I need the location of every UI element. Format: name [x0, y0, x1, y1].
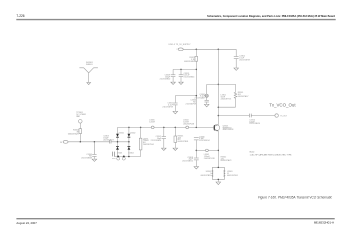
node C3313 — [180, 69, 182, 71]
capacitor C3302 — [234, 49, 239, 68]
IC U3301 left label — [201, 171, 212, 177]
capacitor C3309 label — [160, 75, 171, 81]
capacitor C3302 label — [239, 56, 249, 62]
capacitor C3304 — [205, 100, 209, 104]
wire — [79, 123, 81, 129]
wire main vertical (collector column) — [217, 49, 219, 124]
node IC top — [218, 167, 220, 169]
node C3311/base column — [196, 95, 198, 97]
node D3302 mid — [128, 141, 130, 143]
inductor L3302 (bead) — [206, 149, 209, 152]
capacitor C3303 label — [103, 136, 114, 142]
ground (C3308) — [194, 167, 199, 169]
wire bridge bottom rail — [114, 156, 141, 158]
port 5V_STEER — [63, 141, 68, 144]
svg-text:SHIELD: SHIELD — [86, 64, 93, 66]
inductor L3305 label — [149, 120, 155, 124]
capacitor C3308 label — [182, 157, 193, 163]
inductor L3303 label — [143, 138, 154, 146]
node L3303 top — [140, 127, 142, 129]
resistor R3322 label — [184, 57, 195, 63]
ground (C3311) — [173, 111, 178, 113]
inductor L3304 (bead on rail) — [186, 126, 189, 129]
resistor R3305 label — [178, 135, 189, 143]
varactor D3301 — [116, 127, 119, 141]
footer rule — [16, 218, 334, 220]
transistor Q3301 — [213, 125, 219, 132]
varactor D3302 — [128, 127, 131, 141]
svg-text:2113743E22: 2113743E22 — [182, 161, 193, 163]
wire tank top — [207, 83, 236, 85]
varactor D3304 — [128, 142, 131, 157]
capacitor C3313 label — [184, 73, 195, 79]
resistor R3301 (zigzag) — [234, 84, 237, 107]
ground (C3313) — [179, 82, 184, 84]
node bottom rail D3304 — [128, 156, 130, 158]
node emitter tap left — [196, 150, 198, 152]
svg-text:Schematics, Component Location: Schematics, Component Location Diagrams,… — [207, 14, 335, 18]
svg-text:0662057A25: 0662057A25 — [68, 132, 79, 135]
svg-text:2113743E20: 2113743E20 — [249, 123, 260, 125]
node tank top — [218, 84, 220, 86]
inductor L3303 — [139, 127, 142, 156]
svg-text:2462587N14: 2462587N14 — [143, 144, 154, 146]
svg-text:Figure 7-160. PMLF4035A Transm: Figure 7-160. PMLF4035A Transmit VCO Sch… — [258, 195, 332, 199]
svg-text:0662057B24: 0662057B24 — [201, 175, 212, 177]
wire emitter tap line — [196, 149, 205, 151]
wire tank bottom — [218, 106, 235, 108]
capacitor C3307 — [162, 127, 166, 148]
resistor R3304 label — [68, 130, 79, 136]
svg-text:4880154K03: 4880154K03 — [223, 129, 234, 131]
label under C3311 — [112, 157, 115, 159]
svg-text:2113743E24: 2113743E24 — [151, 140, 162, 142]
capacitor C3310 (series) — [249, 114, 251, 118]
test point TP3301 — [79, 120, 83, 124]
wire output line — [218, 115, 249, 117]
capacitor C3303 (series) — [110, 140, 112, 143]
svg-text:2113741F49: 2113741F49 — [239, 59, 249, 61]
ground (U3301) — [216, 182, 221, 185]
port TX_OUT — [275, 114, 278, 117]
node R3322/decoupling — [196, 69, 198, 71]
varactor bridge top rail / base rail wire — [118, 126, 215, 128]
svg-text:2113743N24: 2113743N24 — [184, 77, 195, 79]
IC U3301 right label — [227, 171, 238, 177]
node top rail R3322 — [196, 49, 198, 51]
ground (R3305) — [173, 148, 178, 150]
wire steer line — [68, 141, 109, 143]
capacitor C3304 label — [186, 100, 197, 106]
ground (shield) — [87, 83, 91, 85]
svg-text:2462587V48: 2462587V48 — [204, 158, 215, 160]
svg-text:0662057A92: 0662057A92 — [184, 60, 195, 63]
node D3302 top — [128, 127, 130, 129]
node D3301 mid — [117, 141, 119, 143]
svg-text:2113743E27: 2113743E27 — [103, 139, 114, 141]
capacitor C3308 — [194, 158, 199, 166]
svg-text:2113743E20: 2113743E20 — [160, 78, 171, 80]
resistor R3305 — [174, 127, 177, 148]
svg-text:2113743N69: 2113743N69 — [81, 158, 92, 160]
capacitor C3313 — [179, 69, 184, 82]
inductor L3301 label — [221, 95, 232, 101]
svg-text:2: 2 — [177, 49, 178, 51]
svg-text:U201-3 TX_5V_SUPPLY: U201-3 TX_5V_SUPPLY — [169, 44, 192, 46]
svg-text:2113740F59: 2113740F59 — [186, 103, 196, 105]
svg-text:6816532H01-A: 6816532H01-A — [314, 221, 334, 225]
ground (C3302) — [234, 68, 239, 70]
inductor L3302 label — [204, 154, 215, 160]
capacitor C3301 label — [194, 94, 205, 100]
wire emitter tap line b — [209, 149, 219, 151]
svg-text:120nH: 120nH — [149, 122, 155, 124]
capacitor C3306 — [194, 138, 199, 140]
capacitor C3311 label — [162, 103, 173, 109]
svg-text:TX_OUT: TX_OUT — [280, 116, 287, 118]
resistor R3301 label — [238, 92, 249, 98]
shield SH3301 label — [86, 62, 93, 66]
node C3307 top — [163, 127, 165, 129]
resistor R3304 — [79, 129, 82, 134]
capacitor C3305 label — [81, 154, 92, 160]
trimmer capacitor C3301 — [205, 84, 209, 100]
svg-text:D3301: D3301 — [119, 132, 124, 134]
resistor R3322 — [195, 49, 198, 127]
svg-text:2462587T13: 2462587T13 — [221, 98, 232, 100]
capacitor C3311 (vertical bars) — [112, 152, 114, 157]
capacitor C3311 — [173, 96, 196, 112]
node steer/R3304 — [80, 141, 82, 143]
resistor R3302 label — [221, 156, 232, 162]
wire — [79, 134, 81, 142]
inductor L3304 label — [183, 120, 194, 126]
port U201-3 — [178, 48, 183, 51]
capacitor C3310 label — [249, 119, 260, 125]
node steer/C3305 — [94, 141, 96, 143]
ground (C3301) — [204, 104, 209, 106]
svg-text:2113743E14: 2113743E14 — [199, 140, 210, 142]
shield SH3301 — [79, 68, 98, 83]
ground (C3305) — [92, 159, 97, 161]
wire steer line right of cap — [111, 141, 129, 143]
node tank bottom — [218, 106, 220, 108]
node output tap — [218, 115, 220, 117]
wire emitter — [217, 131, 219, 167]
wire top rail — [183, 48, 236, 50]
capacitor C3305 — [92, 142, 96, 159]
svg-text:0662057A57: 0662057A57 — [238, 95, 249, 98]
svg-text:2462587V48: 2462587V48 — [183, 123, 194, 125]
varactor D3303 — [116, 142, 119, 157]
svg-text:August 24, 2007: August 24, 2007 — [16, 221, 37, 225]
ground (C3309) — [171, 82, 176, 84]
capacitor C3309 — [171, 69, 176, 82]
svg-text:0662057B24: 0662057B24 — [227, 175, 238, 177]
node IC bottom — [218, 179, 220, 181]
via pad left — [117, 156, 120, 161]
node R3305 top — [175, 127, 177, 129]
svg-text:D3302: D3302 — [130, 132, 135, 134]
wire decoupling branch — [173, 68, 196, 70]
capacitor C3307 label — [151, 136, 162, 142]
ground (C3307) — [162, 148, 167, 150]
svg-text:7-226: 7-226 — [16, 14, 24, 18]
node emitter tap — [218, 150, 220, 152]
capacitor C3306 label — [199, 136, 210, 142]
node top rail tank — [218, 49, 220, 51]
inductor L3305 (bead on rail) — [151, 126, 154, 129]
svg-text:0662057A73: 0662057A73 — [221, 159, 232, 162]
svg-text:0662057B01: 0662057B01 — [178, 141, 189, 143]
svg-text:1. ALL RF CAPS ARE HIGH Q DIEL: 1. ALL RF CAPS ARE HIGH Q DIELECTRIC TYP… — [250, 154, 293, 157]
transistor Q3301 label — [223, 125, 234, 131]
wire base column mid — [195, 140, 197, 158]
svg-text:Tx_VCO_Out: Tx_VCO_Out — [269, 102, 296, 107]
test point TP3301 label — [76, 112, 86, 118]
via pad right — [122, 156, 125, 161]
svg-text:Note:: Note: — [250, 150, 256, 153]
header rule — [16, 19, 335, 21]
IC U3301 — [212, 167, 225, 181]
node base/C3306 — [196, 127, 198, 129]
svg-text:2113741F49: 2113741F49 — [162, 106, 172, 108]
wire output line right — [251, 115, 275, 117]
svg-text:PAD: PAD — [76, 115, 80, 118]
